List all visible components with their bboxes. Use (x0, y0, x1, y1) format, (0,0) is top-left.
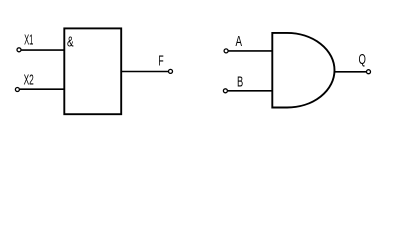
wire X2 to U1 (20, 88, 65, 90)
wire U2 output to Q (334, 71, 367, 73)
svg-text:&: & (67, 34, 74, 50)
wire A to U2 (229, 50, 273, 52)
svg-text:X2: X2 (24, 73, 34, 89)
svg-text:Q: Q (359, 52, 366, 68)
terminal circle Q (367, 70, 371, 74)
terminal circle B (223, 89, 227, 93)
terminal circle X1 (17, 48, 21, 52)
svg-text:F: F (158, 54, 163, 70)
wire X1 to U1 (21, 49, 64, 51)
terminal circle A (224, 49, 228, 53)
terminal circle X2 (15, 88, 19, 92)
svg-text:X1: X1 (24, 33, 33, 49)
terminal circle F (169, 69, 173, 73)
svg-text:B: B (237, 75, 243, 91)
svg-text:A: A (236, 34, 243, 50)
wire U1 output to F (121, 71, 168, 73)
AND gate U2 (ANSI distinctive-shape symbol) (272, 33, 334, 108)
AND gate U1 (IEC rectangular symbol) (64, 28, 121, 114)
wire B to U2 (228, 90, 272, 92)
